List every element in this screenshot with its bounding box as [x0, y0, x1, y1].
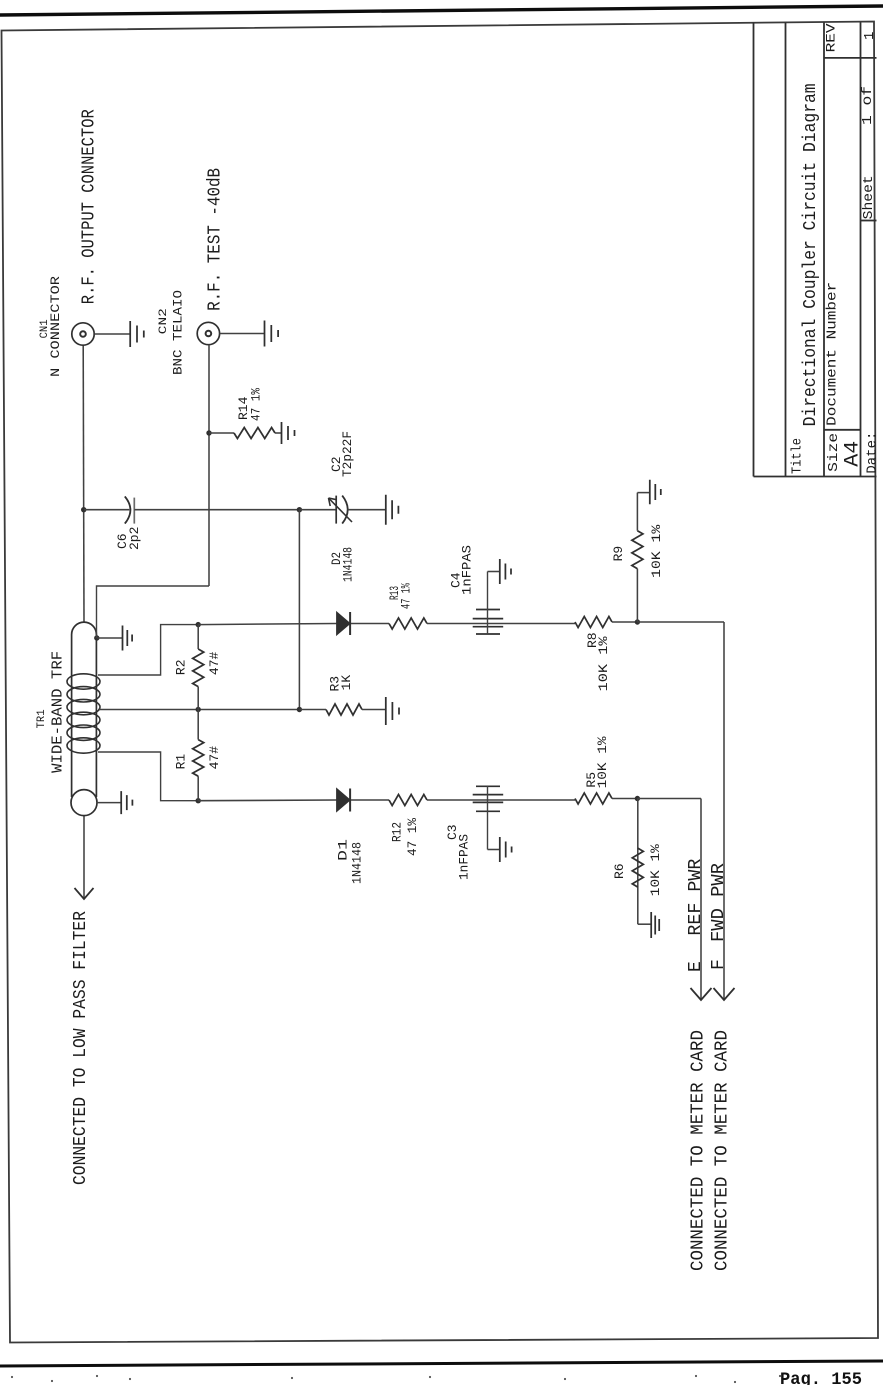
svg-text:REF PWR: REF PWR [686, 858, 706, 935]
svg-text:1K: 1K [339, 675, 354, 691]
svg-text:R.F. TEST -40dB: R.F. TEST -40dB [206, 168, 226, 311]
svg-text:Date:: Date: [865, 432, 881, 474]
svg-text:R9: R9 [611, 546, 626, 562]
svg-text:CN2: CN2 [158, 308, 170, 334]
svg-text:10K 1%: 10K 1% [595, 736, 610, 788]
svg-text:1nFPAS: 1nFPAS [460, 545, 475, 595]
svg-text:CONNECTED TO METER CARD: CONNECTED TO METER CARD [689, 1030, 709, 1271]
svg-text:WIDE-BAND TRF: WIDE-BAND TRF [50, 651, 67, 773]
svg-text:E: E [686, 961, 706, 972]
svg-text:10K 1%: 10K 1% [649, 525, 664, 578]
svg-text:Size: Size [826, 433, 842, 472]
svg-text:Document Number: Document Number [825, 282, 841, 426]
svg-text:R6: R6 [612, 863, 627, 879]
svg-text:1N4148: 1N4148 [350, 842, 365, 884]
svg-text:47 1%: 47 1% [399, 583, 414, 609]
svg-text:FWD PWR: FWD PWR [709, 863, 729, 942]
svg-text:R12: R12 [390, 822, 405, 842]
svg-text:10K 1%: 10K 1% [648, 844, 663, 896]
svg-text:10K 1%: 10K 1% [596, 636, 611, 691]
svg-text:47#: 47# [207, 651, 222, 675]
svg-text:47 1%: 47 1% [249, 388, 264, 421]
svg-text:F: F [709, 959, 729, 970]
svg-text:R2: R2 [174, 659, 189, 675]
svg-text:A4: A4 [842, 441, 865, 467]
svg-text:R.F. OUTPUT CONNECTOR: R.F. OUTPUT CONNECTOR [80, 109, 100, 304]
svg-text:47 1%: 47 1% [405, 818, 420, 856]
svg-text:CONNECTED TO LOW PASS FILTER: CONNECTED TO LOW PASS FILTER [71, 911, 91, 1185]
svg-text:CONNECTED TO METER CARD: CONNECTED TO METER CARD [713, 1030, 733, 1271]
svg-text:47#: 47# [207, 746, 222, 770]
svg-text:D1: D1 [336, 839, 351, 861]
svg-text:TR1: TR1 [36, 709, 48, 728]
svg-text:1N4148: 1N4148 [341, 547, 356, 582]
svg-text:T2p22F: T2p22F [340, 431, 355, 477]
svg-text:1: 1 [862, 32, 878, 40]
svg-text:R1: R1 [174, 754, 189, 770]
svg-text:Pag. 155: Pag. 155 [780, 1370, 862, 1385]
svg-text:N CONNECTOR: N CONNECTOR [48, 276, 63, 377]
svg-text:Directional Coupler Circuit Di: Directional Coupler Circuit Diagram [801, 83, 821, 426]
svg-text:Title: Title [790, 438, 806, 474]
svg-text:BNC TELAIO: BNC TELAIO [171, 290, 186, 375]
svg-text:2p2: 2p2 [127, 527, 142, 550]
svg-text:REV: REV [824, 23, 839, 52]
svg-text:1nFPAS: 1nFPAS [457, 834, 472, 880]
svg-text:Sheet: Sheet [861, 175, 877, 219]
svg-text:1 of: 1 of [860, 86, 876, 125]
